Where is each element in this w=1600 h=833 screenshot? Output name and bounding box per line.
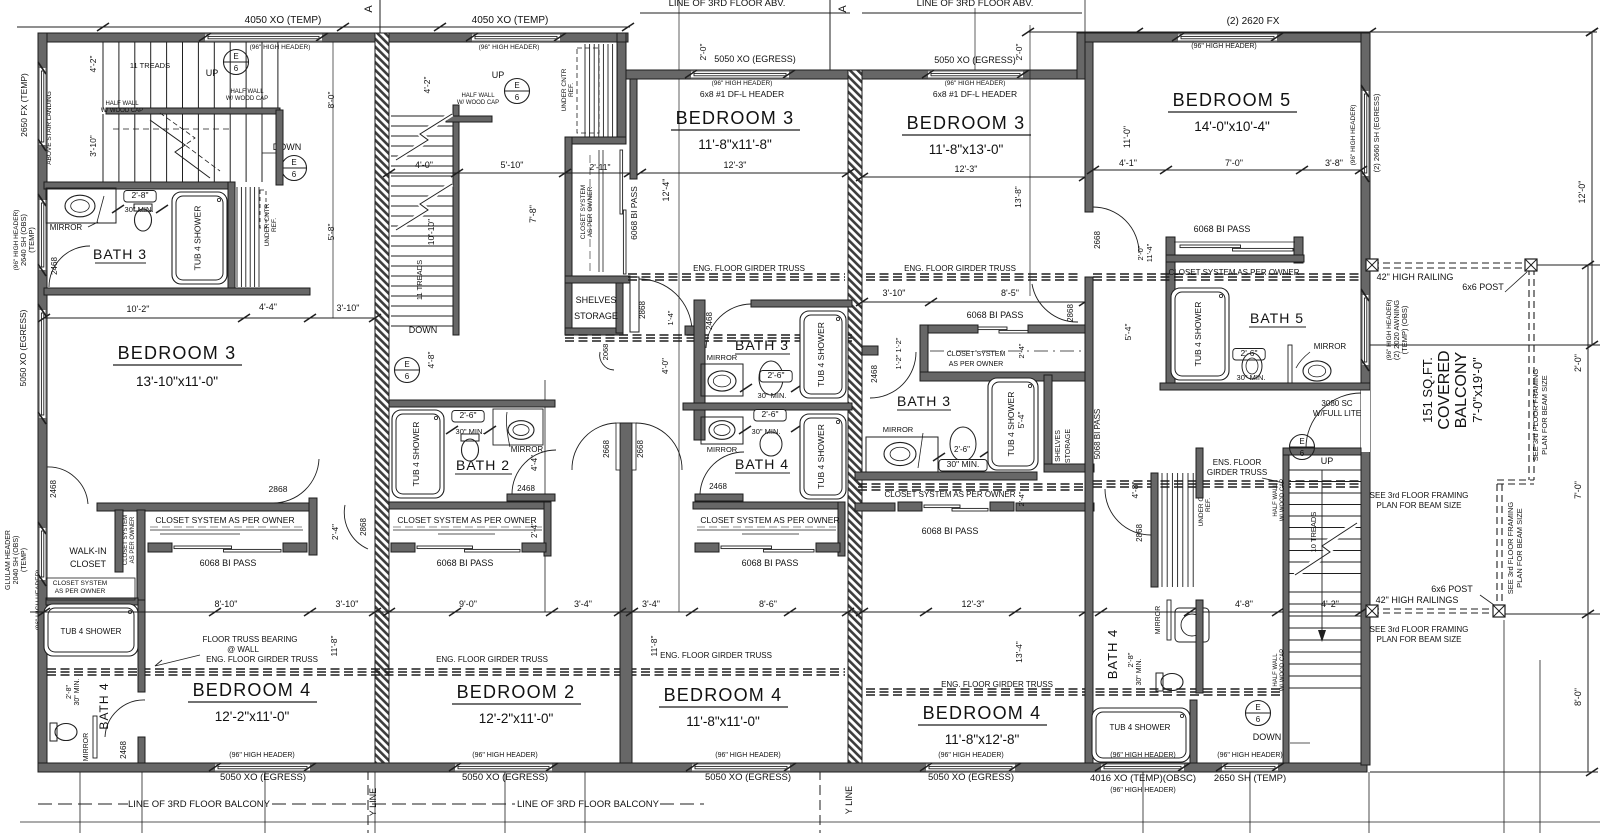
svg-text:UNDER CNTR: UNDER CNTR <box>561 68 568 111</box>
svg-text:BEDROOM 4: BEDROOM 4 <box>193 680 312 700</box>
bath4 u3 door wall <box>695 494 743 501</box>
svg-text:(96" HIGH HEADER): (96" HIGH HEADER) <box>938 752 1004 759</box>
svg-text:30" MIN.: 30" MIN. <box>758 391 787 400</box>
svg-text:A: A <box>363 5 375 13</box>
svg-text:ENG. FLOOR GIRDER TRUSS: ENG. FLOOR GIRDER TRUSS <box>904 264 1016 273</box>
bath2 door swing <box>512 450 556 494</box>
svg-text:ENG. FLOOR GIRDER TRUSS: ENG. FLOOR GIRDER TRUSS <box>660 651 772 660</box>
svg-text:E: E <box>233 52 238 61</box>
svg-text:30" MIN.: 30" MIN. <box>456 427 485 436</box>
svg-text:E: E <box>404 360 409 369</box>
svg-text:CLOSET SYSTEM: CLOSET SYSTEM <box>580 185 587 239</box>
svg-text:6: 6 <box>1256 715 1261 724</box>
dim line u5 <box>1093 169 1361 171</box>
boxed dim <box>452 411 484 423</box>
svg-text:2'-4": 2'-4" <box>1017 343 1026 358</box>
svg-text:2'-8": 2'-8" <box>1126 652 1135 667</box>
svg-text:7'-0"x19'-0": 7'-0"x19'-0" <box>1470 357 1485 423</box>
svg-text:5'-8": 5'-8" <box>326 224 336 241</box>
svg-text:LINE OF 3RD FLOOR ABV.: LINE OF 3RD FLOOR ABV. <box>669 0 786 9</box>
svg-text:BEDROOM 5: BEDROOM 5 <box>1173 90 1292 110</box>
svg-text:6: 6 <box>292 170 297 179</box>
6x6 post <box>1493 605 1505 617</box>
svg-text:151 SQ.FT.: 151 SQ.FT. <box>1420 357 1435 423</box>
svg-text:2'-6": 2'-6" <box>460 410 477 420</box>
svg-text:COVERED: COVERED <box>1436 350 1453 429</box>
svg-text:1'-2": 1'-2" <box>894 354 903 369</box>
eng. floor girder truss line <box>866 688 1286 690</box>
svg-text:TUB 4 SHOWER: TUB 4 SHOWER <box>411 422 421 487</box>
window jamb ticks left wall <box>38 62 46 74</box>
svg-text:Y LINE: Y LINE <box>368 788 378 816</box>
6x6 post <box>1366 259 1378 271</box>
svg-text:MIRROR: MIRROR <box>707 353 738 362</box>
party wall 2 <box>848 70 862 763</box>
window 5050 XO unit3 <box>691 70 789 79</box>
svg-text:PLAN FOR BEAM SIZE: PLAN FOR BEAM SIZE <box>1515 508 1524 588</box>
svg-text:HALF WALL: HALF WALL <box>461 93 495 99</box>
vanity counter u3 bath4 <box>701 417 743 444</box>
svg-text:2468: 2468 <box>870 365 879 383</box>
svg-text:3'-10": 3'-10" <box>337 303 360 313</box>
boxed dim <box>754 410 786 422</box>
stair break line <box>150 120 210 178</box>
svg-text:(96" HIGH HEADER): (96" HIGH HEADER) <box>1217 752 1283 759</box>
svg-text:WALK-IN: WALK-IN <box>69 546 106 556</box>
closet right wall u5 <box>1294 237 1303 263</box>
bath4 u3 door swing <box>700 452 744 494</box>
svg-text:HALF WALL: HALF WALL <box>1273 483 1279 517</box>
svg-text:TUB 4 SHOWER: TUB 4 SHOWER <box>816 322 826 387</box>
door stub <box>685 326 694 335</box>
svg-text:2'-6": 2'-6" <box>768 370 785 380</box>
svg-text:BEDROOM 2: BEDROOM 2 <box>457 682 576 702</box>
bath5 bottom wall <box>1160 383 1370 390</box>
svg-text:42" HIGH RAILING: 42" HIGH RAILING <box>1377 272 1454 282</box>
property line right <box>819 770 821 833</box>
right window 2660 SH <box>1361 91 1370 176</box>
svg-text:MIRROR: MIRROR <box>50 223 83 232</box>
svg-text:ENG. FLOOR GIRDER TRUSS: ENG. FLOOR GIRDER TRUSS <box>206 655 318 664</box>
svg-text:W/ WOOD CAP: W/ WOOD CAP <box>457 100 499 106</box>
svg-text:SHELVES: SHELVES <box>576 295 617 305</box>
svg-text:BATH 4: BATH 4 <box>1105 629 1120 680</box>
svg-text:REF.: REF. <box>1205 498 1212 512</box>
svg-text:(96" HIGH HEADER): (96" HIGH HEADER) <box>472 752 538 759</box>
vanity sink <box>65 195 95 217</box>
svg-text:6: 6 <box>405 372 410 381</box>
svg-text:(96" HIGH HEADER): (96" HIGH HEADER) <box>945 80 1006 87</box>
shelves bottom wall u4 <box>1044 464 1094 472</box>
bath4 right counter wall <box>1196 600 1203 693</box>
bath2 door wall <box>507 494 555 501</box>
svg-text:BATH 3: BATH 3 <box>897 393 951 409</box>
electrical symbol E/6 <box>1290 435 1315 460</box>
top wall (unit 5) <box>1085 33 1370 42</box>
right vertical dim line 3 <box>1587 614 1589 772</box>
svg-text:PLAN FOR BEAM SIZE: PLAN FOR BEAM SIZE <box>1377 501 1462 510</box>
svg-text:ENS. FLOOR: ENS. FLOOR <box>1213 458 1262 467</box>
svg-text:BEDROOM 3: BEDROOM 3 <box>118 343 237 363</box>
closet rod dash-dot <box>930 350 1085 352</box>
toilet <box>134 204 152 231</box>
svg-text:10'-10": 10'-10" <box>426 219 436 245</box>
svg-text:5050 XO (EGRESS): 5050 XO (EGRESS) <box>18 309 28 386</box>
svg-text:2668: 2668 <box>602 440 611 458</box>
balcony railing jog <box>1497 479 1534 481</box>
closet dash line <box>150 526 303 528</box>
svg-text:LINE OF 3RD FLOOR BALCONY: LINE OF 3RD FLOOR BALCONY <box>517 799 660 810</box>
svg-text:CLOSET: CLOSET <box>70 559 107 569</box>
bath3 door swing <box>49 246 90 287</box>
svg-text:2468: 2468 <box>119 741 128 759</box>
bath4 wall <box>138 600 145 692</box>
svg-text:2'-0": 2'-0" <box>1136 245 1145 260</box>
shelf line <box>160 533 240 535</box>
shelves left wall u4 <box>1044 375 1052 467</box>
svg-text:TUB 4 SHOWER: TUB 4 SHOWER <box>1006 392 1016 457</box>
stair unit1 lower run treads <box>102 114 104 182</box>
window 4050 XO unit1 <box>205 33 322 42</box>
svg-text:MIRROR: MIRROR <box>1155 606 1162 634</box>
bottom window 4016 XO <box>1101 763 1184 772</box>
svg-text:6x6 POST: 6x6 POST <box>1462 282 1504 292</box>
svg-text:4050 XO (TEMP): 4050 XO (TEMP) <box>472 15 549 26</box>
bottom extension line x=585 <box>584 772 586 833</box>
svg-text:3'-4": 3'-4" <box>574 599 592 609</box>
svg-text:A: A <box>837 5 849 13</box>
walk-in closet door swing <box>47 467 88 504</box>
bottom extension line x=265 <box>264 772 266 833</box>
window 2620 FX unit5 <box>1178 33 1277 42</box>
svg-text:BATH 3: BATH 3 <box>735 337 789 353</box>
svg-text:3080 SC: 3080 SC <box>1321 399 1352 408</box>
right margin dimension lines <box>1370 344 1600 346</box>
svg-text:3'-10": 3'-10" <box>336 599 359 609</box>
svg-text:2'-8": 2'-8" <box>66 685 73 699</box>
vanity sink <box>1303 361 1331 381</box>
svg-text:W/ WOOD CAP: W/ WOOD CAP <box>226 96 268 102</box>
svg-text:ENG. FLOOR GIRDER TRUSS: ENG. FLOOR GIRDER TRUSS <box>941 680 1053 689</box>
top wall (units 3-4, recessed) <box>626 70 1085 79</box>
svg-text:CLOSET SYSTEM AS PER OWNER: CLOSET SYSTEM AS PER OWNER <box>155 515 294 525</box>
closet bottom wall unit2 <box>565 276 630 283</box>
svg-text:2668: 2668 <box>636 440 645 458</box>
svg-text:7'-8": 7'-8" <box>528 205 538 223</box>
bath3 u3 top wall <box>751 300 852 307</box>
boxed dim <box>760 371 792 383</box>
svg-text:2468: 2468 <box>705 312 714 330</box>
balcony extension line 2 <box>1539 660 1541 833</box>
closet door swing u4 <box>1032 284 1078 322</box>
svg-text:5050 XO (EGRESS): 5050 XO (EGRESS) <box>220 772 306 783</box>
bi-pass u4 row2 <box>898 502 922 511</box>
closet top wall right u4 <box>1028 325 1088 333</box>
svg-text:REF.: REF. <box>271 218 278 232</box>
bedroom3 u3 left wall <box>630 79 637 179</box>
svg-text:30" MIN.: 30" MIN. <box>74 678 81 705</box>
svg-text:6x6 POST: 6x6 POST <box>1431 584 1473 594</box>
svg-text:DOWN: DOWN <box>1253 732 1282 742</box>
svg-text:1'-4": 1'-4" <box>666 310 675 325</box>
bottom extension line x=142 <box>141 772 143 833</box>
svg-text:8'-10": 8'-10" <box>215 599 238 609</box>
tub & shower u3 bath4 <box>800 414 846 499</box>
bath4 door swing <box>105 700 145 737</box>
unit4/unit5 wall <box>1085 277 1093 763</box>
wall above bath <box>1196 448 1203 498</box>
electrical symbol E/6 <box>282 156 307 181</box>
closet bottom wall u4 <box>920 372 1092 381</box>
stair half wall <box>1283 455 1289 763</box>
svg-text:W/ WOOD CAP: W/ WOOD CAP <box>101 108 143 114</box>
eng. floor girder truss line <box>47 668 845 670</box>
svg-text:6068 BI PASS: 6068 BI PASS <box>742 558 799 568</box>
line of 3rd floor abv line <box>862 12 1082 14</box>
6x6 post <box>1366 605 1378 617</box>
bath3 u3 left wall <box>694 300 705 440</box>
section line A left <box>379 0 381 33</box>
svg-text:FLOOR TRUSS BEARING: FLOOR TRUSS BEARING <box>203 635 298 644</box>
svg-text:4'-2": 4'-2" <box>422 77 432 94</box>
svg-text:HALF WALL: HALF WALL <box>105 101 139 107</box>
svg-text:BEDROOM 4: BEDROOM 4 <box>923 703 1042 723</box>
toilet u3 bath4 <box>760 432 782 456</box>
closet top wall u3 <box>693 502 845 509</box>
svg-text:2040 SH (OBS): 2040 SH (OBS) <box>13 536 20 585</box>
svg-text:2868: 2868 <box>359 518 368 536</box>
bottom extension line x=1250 <box>1249 772 1251 833</box>
svg-text:5068 BI PASS: 5068 BI PASS <box>1093 409 1102 460</box>
bi-pass doors unit2 <box>391 543 415 552</box>
svg-text:4016 XO (TEMP)(OBSC): 4016 XO (TEMP)(OBSC) <box>1090 773 1196 784</box>
svg-text:2068: 2068 <box>601 344 610 361</box>
svg-text:6x8 #1 DF-L HEADER: 6x8 #1 DF-L HEADER <box>933 89 1017 99</box>
svg-text:STORAGE: STORAGE <box>574 311 618 321</box>
svg-text:7'-0": 7'-0" <box>1573 481 1583 499</box>
svg-text:6068 BI PASS: 6068 BI PASS <box>1194 224 1251 234</box>
nook right wall <box>617 42 626 144</box>
svg-text:(2) 2660 SH (EGRESS): (2) 2660 SH (EGRESS) <box>1372 93 1381 172</box>
svg-text:6: 6 <box>234 64 239 73</box>
svg-text:11'-8": 11'-8" <box>329 635 339 656</box>
right vertical dim line 2 <box>1587 265 1589 614</box>
right wall <box>1361 33 1370 765</box>
left window 2640 SH <box>38 200 47 270</box>
bath3 u3 door swing <box>706 304 751 348</box>
svg-text:2'-0": 2'-0" <box>1573 354 1583 372</box>
vanity sink <box>708 371 736 391</box>
svg-text:8'-6": 8'-6" <box>759 599 777 609</box>
eng. floor girder truss line <box>565 334 852 336</box>
svg-text:4'-4": 4'-4" <box>259 302 277 312</box>
svg-text:BALCONY: BALCONY <box>1453 351 1470 428</box>
balcony railing right upper <box>1528 268 1530 480</box>
svg-text:(96" HIGH HEADER): (96" HIGH HEADER) <box>712 80 773 87</box>
svg-text:TUB 4 SHOWER: TUB 4 SHOWER <box>193 206 203 271</box>
balcony railing top <box>1372 262 1534 264</box>
balcony railing right lower <box>1496 484 1498 613</box>
svg-text:11'-0": 11'-0" <box>1122 126 1132 148</box>
bottom extension line x=1369 <box>1368 772 1370 833</box>
toilet <box>461 434 479 461</box>
tub & shower unit1 bath4 <box>44 604 138 656</box>
svg-text:(96" HIGH HEADER): (96" HIGH HEADER) <box>715 752 781 759</box>
closet end door swing <box>273 459 319 503</box>
storage bottom wall <box>565 328 623 335</box>
svg-text:(96" HIGH HEADER): (96" HIGH HEADER) <box>1350 105 1357 166</box>
half wall at stair unit2 <box>453 105 459 335</box>
svg-text:STORAGE: STORAGE <box>1065 429 1072 463</box>
svg-text:CLOSET SYSTEM AS PER OWNER: CLOSET SYSTEM AS PER OWNER <box>700 515 839 525</box>
under counter ref hatch unit1 <box>236 187 238 287</box>
svg-text:2468: 2468 <box>517 484 535 493</box>
svg-text:MIRROR: MIRROR <box>883 425 914 434</box>
closet right wall unit2 <box>544 502 551 556</box>
svg-text:5050 XO (EGRESS): 5050 XO (EGRESS) <box>705 772 791 783</box>
closet bottom wall u5 <box>1166 255 1304 262</box>
right wall door gap for balcony door <box>1361 390 1370 452</box>
tub & shower bath2 <box>392 410 444 498</box>
window jamb ticks top wall <box>199 33 211 41</box>
svg-text:6068 BI PASS: 6068 BI PASS <box>967 310 1024 320</box>
line of 3rd floor balcony dashed <box>38 803 128 805</box>
closet left wall u5 <box>1166 237 1175 390</box>
vanity sink <box>884 442 916 465</box>
svg-text:2868: 2868 <box>1066 304 1075 322</box>
bath3 u4 door swing <box>870 352 916 398</box>
svg-text:12'-3": 12'-3" <box>955 164 978 174</box>
svg-text:2'-8": 2'-8" <box>132 190 149 200</box>
jog wall at x=1080 <box>1077 33 1086 79</box>
tub & shower right bath4 <box>1092 708 1190 762</box>
window 4050 XO unit2 <box>472 33 560 42</box>
svg-text:3'-4": 3'-4" <box>642 599 660 609</box>
svg-text:4'-8": 4'-8" <box>1235 599 1253 609</box>
bi-pass doors unit1 <box>148 543 172 552</box>
svg-text:7'-0": 7'-0" <box>1225 158 1243 168</box>
hall door swing u1 <box>344 505 368 549</box>
open door leaf 2868 <box>630 277 639 332</box>
svg-text:AS PER OWNER: AS PER OWNER <box>55 588 106 595</box>
svg-text:1'-2": 1'-2" <box>894 337 903 352</box>
svg-text:(TEMP): (TEMP) <box>21 548 28 572</box>
bi-pass unit2 vertical <box>620 150 623 214</box>
svg-text:2668: 2668 <box>1093 231 1102 249</box>
svg-text:(TEMP): (TEMP) <box>27 227 36 253</box>
bi-pass doors u3 <box>695 543 719 552</box>
toilet u4 bath3 <box>950 427 976 461</box>
stair rail dashed <box>113 128 230 130</box>
svg-text:12'-3": 12'-3" <box>962 599 985 609</box>
svg-text:CLOSET SYSTEM AS PER OWNER: CLOSET SYSTEM AS PER OWNER <box>1169 268 1300 277</box>
bottom extension line x=505 <box>504 772 506 833</box>
electrical symbol E/6 <box>505 79 530 104</box>
svg-text:GLULAM HEADER: GLULAM HEADER <box>5 530 12 590</box>
walk-in right wall <box>115 510 123 572</box>
svg-text:BEDROOM 3: BEDROOM 3 <box>676 108 795 128</box>
svg-text:2'-4": 2'-4" <box>1017 491 1026 506</box>
jog wall at x=620 <box>617 33 626 79</box>
svg-text:2'-6": 2'-6" <box>954 445 970 454</box>
svg-text:TUB 4 SHOWER: TUB 4 SHOWER <box>61 627 122 636</box>
bottom extension line x=1143 <box>1142 772 1144 833</box>
balcony railing bottom <box>1372 608 1497 610</box>
6x6 post <box>1525 259 1537 271</box>
svg-text:3'-10": 3'-10" <box>88 135 98 157</box>
eng. floor girder truss line <box>628 273 845 275</box>
line of 3rd floor abv line <box>640 12 850 14</box>
svg-text:Y LINE: Y LINE <box>844 786 854 814</box>
closet left wall unit2 <box>565 137 572 333</box>
svg-text:6068 BI PASS: 6068 BI PASS <box>200 558 257 568</box>
svg-text:11'-8": 11'-8" <box>649 635 659 656</box>
svg-text:(96" HIGH HEADER): (96" HIGH HEADER) <box>1110 787 1176 794</box>
electrical symbol E/6 <box>395 358 420 383</box>
svg-text:12'-2"x11'-0": 12'-2"x11'-0" <box>215 709 290 724</box>
eng. floor girder truss line <box>1093 480 1361 482</box>
svg-text:8'-5": 8'-5" <box>1001 288 1019 298</box>
svg-text:LINE OF 3RD FLOOR BALCONY: LINE OF 3RD FLOOR BALCONY <box>128 799 271 810</box>
bath4 wall lower <box>138 737 145 763</box>
eng. floor girder truss line <box>1093 273 1361 275</box>
left window 2040 SH <box>38 528 47 580</box>
bottom extension line x=80 <box>79 772 81 833</box>
right hall door swing <box>1105 489 1151 535</box>
hall door swing <box>639 279 692 330</box>
svg-text:E: E <box>1299 437 1304 446</box>
property line left <box>367 770 369 833</box>
wall right of tub <box>1190 700 1197 763</box>
svg-text:6068 BI PASS: 6068 BI PASS <box>629 186 639 240</box>
svg-text:11 TREADS: 11 TREADS <box>130 61 170 70</box>
vanity counter u3 bath3 <box>701 364 743 396</box>
svg-text:GIRDER TRUSS: GIRDER TRUSS <box>1207 468 1267 477</box>
window jamb ticks right wall <box>1361 85 1369 97</box>
top dimension line left <box>17 26 630 28</box>
svg-text:W/ WOOD CAP: W/ WOOD CAP <box>1280 479 1286 521</box>
under counter ref unit2 <box>584 44 586 137</box>
svg-text:6: 6 <box>515 93 520 102</box>
svg-text:10 TREADS: 10 TREADS <box>1309 512 1318 553</box>
closet top wall unit1 <box>97 503 315 511</box>
svg-text:PLAN FOR BEAM SIZE: PLAN FOR BEAM SIZE <box>1540 375 1549 455</box>
svg-text:30" MIN.: 30" MIN. <box>1237 373 1266 382</box>
svg-text:SEE 3rd FLOOR FRAMING: SEE 3rd FLOOR FRAMING <box>1370 625 1469 634</box>
bi-pass 6068 u5 <box>1180 245 1241 248</box>
svg-text:4'-2": 4'-2" <box>88 56 98 73</box>
svg-text:42" HIGH RAILINGS: 42" HIGH RAILINGS <box>1376 595 1459 605</box>
svg-text:11'-8"x12'-8": 11'-8"x12'-8" <box>945 732 1020 747</box>
svg-text:4'-8": 4'-8" <box>426 352 436 369</box>
svg-text:4050 XO (TEMP): 4050 XO (TEMP) <box>245 15 322 26</box>
svg-text:MIRROR: MIRROR <box>511 445 544 454</box>
svg-text:11'-8"x11'-8": 11'-8"x11'-8" <box>698 137 772 152</box>
svg-text:3'-10": 3'-10" <box>883 288 906 298</box>
svg-text:CLOSET SYSTEM: CLOSET SYSTEM <box>53 580 107 587</box>
vanity sink <box>709 421 735 440</box>
misc vertical grid lines <box>678 0 680 612</box>
svg-text:(96" HIGH HEADER): (96" HIGH HEADER) <box>250 44 311 51</box>
svg-text:5050 XO (EGRESS): 5050 XO (EGRESS) <box>714 54 796 64</box>
unit5 left wall upper <box>1085 42 1093 212</box>
svg-text:AS PER OWNER: AS PER OWNER <box>949 361 1003 368</box>
svg-text:2868: 2868 <box>269 484 288 494</box>
svg-text:UP: UP <box>206 68 219 78</box>
bath2 top wall <box>389 400 555 407</box>
closet right wall u3 <box>838 502 845 556</box>
balcony door swing <box>1306 393 1361 448</box>
